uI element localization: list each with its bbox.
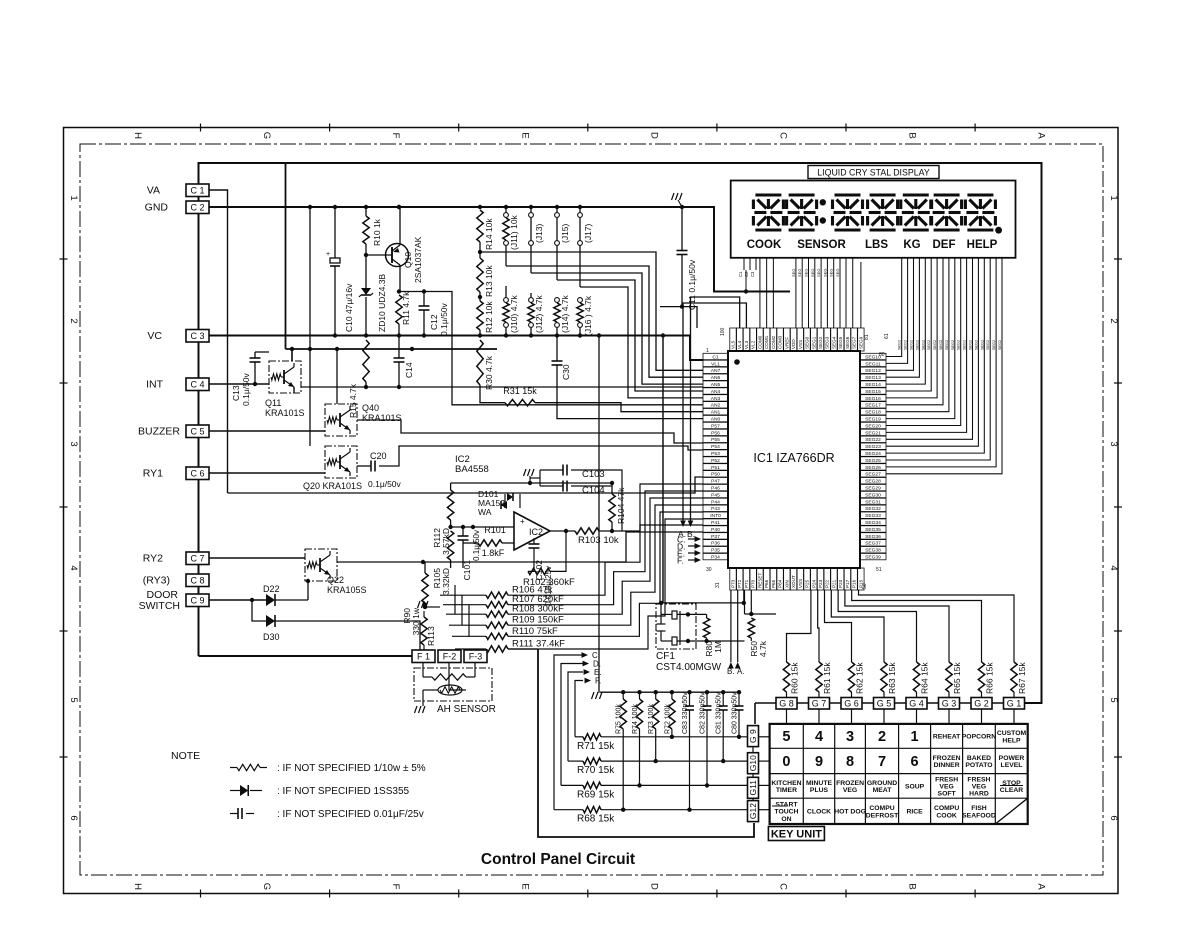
connector C1: [186, 184, 209, 197]
svg-text:D22: D22: [263, 584, 280, 594]
resistor R75: [621, 690, 625, 694]
connector G1: [1004, 698, 1025, 710]
svg-text:C 6: C 6: [190, 468, 204, 478]
svg-text:AN5: AN5: [711, 382, 721, 388]
AH sensor box: [414, 668, 492, 701]
ground AH sensor: [415, 706, 418, 713]
svg-text:: IF NOT SPECIFIED 1/10w ± 5%: : IF NOT SPECIFIED 1/10w ± 5%: [277, 763, 426, 774]
svg-text:GROUND: GROUND: [867, 780, 897, 787]
svg-text:50: 50: [862, 583, 868, 589]
svg-text:P53: P53: [711, 451, 720, 457]
svg-text:FROZEN: FROZEN: [933, 755, 961, 762]
transistor Q20: [325, 446, 357, 478]
wire AN bus line 5: [580, 287, 703, 398]
svg-text:61: 61: [884, 333, 890, 339]
wire x599 vertical: [598, 336, 600, 693]
svg-text:8: 8: [846, 754, 854, 770]
svg-text:R70 15k: R70 15k: [577, 765, 615, 776]
connector G8: [776, 698, 797, 710]
svg-text:SEG1: SEG1: [811, 336, 816, 349]
wire R90 tap: [423, 562, 425, 570]
svg-text:P70: P70: [751, 579, 756, 588]
svg-text:C 2: C 2: [190, 202, 204, 212]
wire ladder left verticals: [461, 595, 463, 625]
LCD colon: [820, 199, 826, 205]
svg-text:P34: P34: [711, 555, 720, 561]
svg-text:SEG: SEG: [816, 269, 821, 277]
node VA branch to C1: [208, 190, 228, 493]
connector G6: [841, 698, 862, 710]
KEY UNIT label box: [768, 827, 824, 841]
svg-text:G 9: G 9: [748, 729, 758, 743]
wire F-2 to sensor: [449, 663, 466, 691]
resonator CF1 box: [656, 604, 696, 649]
svg-text:0.1μ/50v: 0.1μ/50v: [241, 372, 251, 406]
svg-text:SEAFOOD: SEAFOOD: [962, 812, 996, 819]
svg-text:C13: C13: [231, 385, 241, 401]
wire F arrow to pin P34: [688, 559, 696, 561]
wire E arrow to pin P35: [688, 552, 696, 554]
svg-text:G 8: G 8: [779, 698, 794, 708]
svg-text:D: D: [648, 883, 659, 890]
wire F-3 to sensor: [474, 663, 476, 678]
svg-text:SEG: SEG: [822, 269, 827, 277]
svg-text:P72: P72: [737, 579, 742, 588]
LCD digit 4: [870, 193, 896, 196]
resistor R60: [786, 655, 788, 662]
svg-text:C: C: [778, 132, 789, 139]
svg-text:R111 37.4kF: R111 37.4kF: [512, 639, 565, 650]
resistor R14: [477, 210, 483, 242]
svg-text:C104: C104: [582, 485, 605, 496]
svg-text:SEG3: SEG3: [825, 336, 830, 349]
connector C7: [186, 552, 209, 565]
svg-text:P36: P36: [711, 541, 720, 547]
svg-text:P47: P47: [711, 479, 720, 485]
svg-text:XIN: XIN: [784, 580, 789, 588]
svg-text:SEG32: SEG32: [865, 506, 881, 512]
wire CF1 bottom: [677, 640, 745, 642]
resonator CF1 internals: [661, 613, 672, 615]
wire VC rail: [209, 336, 703, 361]
svg-text:SEG5: SEG5: [838, 336, 843, 349]
wire DOOR SWITCH line: [209, 599, 266, 601]
svg-text:RICE: RICE: [906, 809, 923, 816]
wire Q20 feed: [309, 349, 311, 446]
wire C arrow to pin P37: [688, 538, 696, 540]
resistor R65: [948, 655, 950, 662]
svg-text:100: 100: [720, 327, 726, 336]
svg-text:3: 3: [68, 441, 79, 446]
wire net B vertical: [691, 297, 740, 521]
svg-text:VL4: VL4: [737, 340, 742, 349]
wire op-amp top rail: [451, 482, 612, 484]
svg-text:G10: G10: [748, 755, 758, 771]
svg-text:P16: P16: [852, 579, 857, 588]
capacitor C13: [254, 352, 256, 358]
svg-text:330 1w: 330 1w: [411, 607, 421, 635]
svg-text:SEG9: SEG9: [858, 336, 863, 349]
svg-text:DINNER: DINNER: [934, 762, 960, 769]
LCD display box: [731, 181, 1016, 258]
svg-text:SEG2: SEG2: [818, 336, 823, 349]
svg-text:G11: G11: [748, 780, 758, 796]
svg-text:RESET: RESET: [757, 572, 762, 588]
svg-text:R72 100k: R72 100k: [664, 704, 671, 734]
svg-text:SEG2: SEG2: [933, 340, 937, 350]
svg-text:: IF NOT SPECIFIED 0.01μF/25v: : IF NOT SPECIFIED 0.01μF/25v: [277, 809, 424, 820]
svg-text:VL3: VL3: [744, 340, 749, 349]
svg-text:COM0: COM0: [757, 335, 762, 349]
jumper (J17): [579, 207, 581, 212]
resistor R69: [561, 784, 583, 786]
svg-text:C12: C12: [429, 314, 439, 330]
resistor R113: [423, 611, 425, 617]
resistor R11: [396, 295, 402, 324]
svg-text:G 6: G 6: [844, 698, 859, 708]
resistor R66: [981, 655, 983, 662]
connector F-2: [438, 650, 461, 663]
wire G9 bus left: [754, 703, 756, 724]
svg-text:C1: C1: [738, 271, 743, 277]
resistor R13: [479, 242, 481, 258]
wire IC top pin stub j19: [860, 262, 862, 328]
svg-text:R62 15k: R62 15k: [855, 662, 865, 694]
svg-text:SEG12: SEG12: [865, 368, 881, 374]
svg-text:INT: INT: [146, 379, 164, 391]
svg-text:(RY3): (RY3): [143, 575, 170, 587]
svg-text:Q20 KRA101S: Q20 KRA101S: [303, 481, 362, 491]
svg-text:SEG28: SEG28: [865, 479, 881, 485]
svg-text:KRA105S: KRA105S: [327, 585, 367, 595]
wire AN bus line 2: [506, 266, 703, 377]
svg-text:P22: P22: [825, 579, 830, 588]
svg-text:R65 15k: R65 15k: [952, 662, 962, 694]
wire LCD com stubs: [845, 258, 847, 328]
svg-text:BA4558: BA4558: [455, 464, 489, 475]
svg-text:C80 330p50v: C80 330p50v: [732, 692, 739, 734]
svg-text:Control Panel Circuit: Control Panel Circuit: [481, 851, 635, 868]
svg-text:B: B: [907, 132, 918, 138]
svg-text:P65: P65: [771, 579, 776, 588]
svg-text:POWER: POWER: [999, 755, 1025, 762]
svg-text:F.: F.: [677, 556, 684, 566]
svg-text:SEG: SEG: [810, 269, 815, 277]
svg-text:SEG17: SEG17: [865, 403, 881, 409]
svg-text:R68 15k: R68 15k: [577, 814, 615, 825]
svg-text:E: E: [519, 883, 530, 889]
wire Q11 collector riser: [291, 349, 293, 361]
connector F1: [412, 650, 435, 663]
resistor R31: [505, 400, 535, 406]
svg-text:SEG2: SEG2: [963, 340, 967, 350]
wire C103 C104 join: [590, 470, 622, 531]
connector C6: [186, 467, 209, 480]
svg-text:R109 150kF: R109 150kF: [512, 615, 564, 626]
svg-text:1M: 1M: [713, 641, 723, 653]
svg-text:P43: P43: [711, 506, 720, 512]
capacitor C82: [705, 690, 709, 694]
svg-text:P24: P24: [811, 579, 816, 588]
svg-text:R108 300kF: R108 300kF: [512, 604, 564, 615]
svg-text:SEG2: SEG2: [957, 340, 961, 350]
wire Q10 collector node: [399, 291, 424, 293]
svg-text:AN4: AN4: [711, 389, 721, 395]
svg-text:TOUCH: TOUCH: [774, 809, 798, 816]
svg-text:R101: R101: [484, 525, 506, 535]
svg-text:SEG14: SEG14: [865, 382, 881, 388]
capacitor C20: [357, 465, 371, 467]
svg-text:COMPU: COMPU: [869, 805, 894, 812]
wire Q11 emitter row: [301, 386, 703, 388]
svg-text:R60 15k: R60 15k: [790, 662, 800, 694]
svg-text:COM3: COM3: [778, 335, 783, 349]
svg-text:VL2: VL2: [751, 340, 756, 349]
svg-text:SENSOR: SENSOR: [797, 239, 846, 251]
svg-text:+: +: [326, 251, 330, 258]
svg-text:WA: WA: [478, 507, 492, 517]
wire F1 to sensor: [422, 663, 424, 678]
svg-text:C14: C14: [404, 362, 414, 378]
wire BUZZER line: [209, 430, 325, 432]
svg-text:SEG38: SEG38: [865, 548, 881, 554]
svg-text:R13 10k: R13 10k: [484, 265, 494, 297]
svg-text:SWITCH: SWITCH: [139, 600, 180, 612]
resistor R80: [706, 614, 708, 618]
capacitor C30: [556, 336, 558, 362]
resistor R74: [637, 690, 641, 694]
wire D30 output: [275, 621, 420, 656]
resistor R72: [670, 690, 674, 694]
svg-text:HELP: HELP: [1002, 737, 1021, 744]
svg-text:ON: ON: [781, 816, 791, 823]
svg-text:COOK: COOK: [936, 812, 956, 819]
svg-text:30: 30: [706, 567, 712, 573]
svg-text:SOFT: SOFT: [938, 791, 957, 798]
svg-text:GND: GND: [145, 202, 169, 214]
svg-text:VL5: VL5: [731, 340, 736, 349]
svg-text:P66: P66: [764, 579, 769, 588]
svg-text:SEG4: SEG4: [831, 336, 836, 349]
svg-text:P51: P51: [711, 465, 720, 471]
wire G stair bundle: [859, 590, 1015, 655]
svg-text:C20: C20: [370, 451, 387, 461]
svg-text:R66 15k: R66 15k: [985, 662, 995, 694]
svg-text:SEG0: SEG0: [805, 336, 810, 349]
wire connector strip bus: [198, 196, 200, 656]
wire AN bus line 3: [531, 273, 703, 384]
svg-text:SEG2: SEG2: [969, 340, 973, 350]
svg-text:E: E: [519, 132, 530, 138]
svg-text:P44: P44: [711, 499, 720, 505]
svg-text:51: 51: [876, 567, 882, 573]
wire op-amp output: [550, 530, 575, 532]
svg-text:9: 9: [815, 754, 823, 770]
svg-text:0: 0: [782, 754, 790, 770]
capacitor C10: [334, 207, 336, 258]
svg-text:R14 10k: R14 10k: [484, 218, 494, 250]
svg-text:2: 2: [878, 729, 886, 745]
jumper resistor (J14): [556, 296, 558, 298]
resistor R68: [554, 809, 583, 811]
IC1 right pins: [860, 353, 886, 359]
svg-text:SEG2: SEG2: [921, 340, 925, 350]
svg-text:R10 1k: R10 1k: [372, 218, 382, 246]
svg-text:VL1: VL1: [711, 361, 720, 367]
svg-text:R110 75kF: R110 75kF: [512, 626, 558, 637]
LCD left pin stubs: [743, 258, 745, 270]
svg-text:(J15): (J15): [560, 223, 570, 243]
svg-text:AN7: AN7: [711, 368, 721, 374]
svg-text:COMPU: COMPU: [934, 805, 959, 812]
svg-text:C 9: C 9: [190, 595, 204, 605]
svg-text:3: 3: [1108, 441, 1119, 446]
svg-text:SEG24: SEG24: [865, 451, 881, 457]
svg-text:RY1: RY1: [143, 468, 163, 480]
wire AN bus line 4: [557, 280, 703, 391]
svg-text:FRESH: FRESH: [935, 776, 958, 783]
svg-text:SEG6: SEG6: [845, 336, 850, 349]
svg-text:KRA101S: KRA101S: [265, 408, 305, 418]
svg-text:1: 1: [706, 348, 709, 354]
svg-text:4: 4: [1108, 565, 1119, 570]
svg-text:C1: C1: [712, 354, 719, 360]
svg-text:IC1 IZA766DR: IC1 IZA766DR: [753, 451, 834, 465]
svg-text:0.1μ/50v: 0.1μ/50v: [368, 479, 402, 489]
svg-text:XOUT: XOUT: [791, 575, 796, 588]
LCD digit 7: [967, 193, 993, 196]
svg-text:P41: P41: [711, 520, 720, 526]
svg-text:CUSTOM: CUSTOM: [997, 730, 1027, 737]
LCD digit 2: [789, 193, 815, 196]
svg-text:SEG7: SEG7: [852, 336, 857, 349]
svg-text:C 8: C 8: [190, 575, 204, 585]
svg-text:R73 100k: R73 100k: [648, 704, 655, 734]
svg-text:AN1: AN1: [711, 410, 721, 416]
wire bottom-left bus: [199, 655, 413, 657]
svg-text:CF1: CF1: [656, 651, 675, 662]
wire CF1 top rail: [661, 602, 744, 604]
svg-text:SEG35: SEG35: [865, 527, 881, 533]
svg-text:Q10: Q10: [403, 252, 413, 268]
wire AN1 from R31: [535, 403, 703, 412]
svg-text:R74 100k: R74 100k: [632, 704, 639, 734]
resistor R70: [568, 760, 583, 762]
svg-text:P37: P37: [711, 534, 720, 540]
svg-text:P73: P73: [731, 579, 736, 588]
svg-text:SEG2: SEG2: [992, 340, 996, 350]
transistor Q40: [325, 404, 357, 436]
svg-text:A: A: [1036, 132, 1047, 139]
wire A arrow up: [737, 590, 739, 662]
svg-text:SEG2: SEG2: [927, 340, 931, 350]
svg-text:G 4: G 4: [909, 698, 924, 708]
wire feedback loop: [528, 556, 534, 571]
wire AN bus line 1: [480, 252, 703, 370]
diode D30: [252, 600, 266, 621]
svg-text:SEG2: SEG2: [939, 340, 943, 350]
wire y307 line: [660, 306, 682, 308]
svg-text:Q40: Q40: [362, 403, 379, 413]
svg-text:B: B: [907, 883, 918, 889]
svg-text:2: 2: [68, 318, 79, 323]
svg-text:5: 5: [68, 697, 79, 702]
svg-text:VEG: VEG: [972, 784, 986, 791]
svg-text:R104 47k: R104 47k: [616, 487, 626, 524]
resistor R67: [1013, 655, 1015, 662]
svg-text:C3: C3: [750, 271, 755, 277]
transistor Q11: [269, 361, 301, 393]
wire bottom grid bus: [600, 691, 739, 693]
svg-text:F-3: F-3: [469, 651, 483, 661]
svg-text:ZD10 UDZ4.3B: ZD10 UDZ4.3B: [377, 274, 387, 332]
svg-text:COM2: COM2: [771, 335, 776, 349]
wire D arrow to pin P36: [688, 545, 696, 547]
svg-text:VEG: VEG: [939, 784, 953, 791]
svg-text:P57: P57: [711, 423, 720, 429]
IC1 left pins: [703, 353, 728, 359]
svg-text:SEG20: SEG20: [865, 423, 881, 429]
svg-text:R61 15k: R61 15k: [822, 662, 832, 694]
svg-text:1: 1: [1108, 195, 1119, 200]
diode D22: [266, 594, 275, 606]
svg-text:KRA101S: KRA101S: [362, 413, 402, 423]
svg-text:SEG34: SEG34: [865, 520, 881, 526]
svg-text:AN0: AN0: [711, 417, 721, 423]
svg-text:IC2: IC2: [529, 527, 543, 537]
svg-text:R69 15k: R69 15k: [577, 789, 615, 800]
svg-text:F.: F.: [595, 677, 601, 686]
svg-text:6: 6: [1108, 815, 1119, 820]
LCD decimal point: [995, 227, 1002, 234]
wire long bus y493: [228, 477, 704, 493]
wire SEG fan: [886, 258, 902, 357]
svg-text:COOK: COOK: [747, 239, 782, 251]
svg-text:4.7k: 4.7k: [758, 640, 768, 657]
LCD digit 5: [903, 193, 929, 196]
connector G5: [874, 698, 895, 710]
svg-text:C83 330p50v: C83 330p50v: [682, 692, 689, 734]
connector G2: [971, 698, 992, 710]
resistor R61: [818, 655, 820, 662]
svg-text:80: 80: [879, 352, 885, 358]
svg-text:HARD: HARD: [969, 791, 989, 798]
sensor heater resistor: [432, 674, 466, 680]
svg-text:R67 15k: R67 15k: [1017, 662, 1027, 694]
svg-text:AN6: AN6: [711, 375, 721, 381]
svg-text:SEG31: SEG31: [865, 499, 881, 505]
svg-text:SEG2: SEG2: [986, 340, 990, 350]
svg-text:SEG2: SEG2: [951, 340, 955, 350]
capacitor C14: [398, 336, 400, 359]
wire GND rail: [209, 207, 790, 292]
resistor R71: [575, 736, 583, 738]
svg-text:SEG: SEG: [829, 269, 834, 277]
resistor R12: [479, 292, 481, 301]
svg-text:4: 4: [815, 729, 823, 745]
svg-text:VEG: VEG: [843, 787, 857, 794]
svg-text:START: START: [775, 802, 798, 809]
capacitor C11: [681, 207, 683, 251]
svg-text:F-2: F-2: [443, 651, 457, 661]
svg-text:SEG: SEG: [804, 269, 809, 277]
svg-text:SEG2: SEG2: [915, 340, 919, 350]
wire LCD left stubs down: [745, 270, 747, 292]
resistor R73: [654, 690, 658, 694]
svg-text:A.: A.: [737, 667, 745, 676]
svg-text:LEVEL: LEVEL: [1001, 762, 1023, 769]
capacitor C83: [687, 690, 691, 694]
